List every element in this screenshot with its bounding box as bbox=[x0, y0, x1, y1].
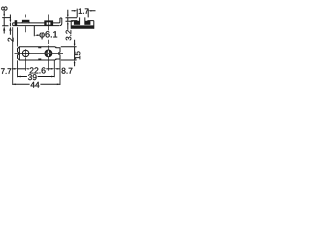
plan view hole 1 bbox=[22, 50, 28, 56]
dim row A line 17.5-25.6 bbox=[18, 68, 26, 70]
dim row A line to 39-ext bbox=[46, 68, 52, 70]
dimension 2 arrow stems bbox=[9, 15, 11, 35]
extension line 39/8.7 right bbox=[53, 60, 55, 77]
front view right end bent-up tab bbox=[59, 18, 62, 26]
dimension 8 arrowheads bbox=[3, 14, 5, 17]
dimension 15 arrowheads bbox=[74, 44, 76, 47]
phi 6.1 text bbox=[40, 31, 58, 39]
dim arrow right of 39-ext bbox=[55, 68, 58, 70]
dimension 3.2 extension lines bbox=[66, 18, 78, 21]
front view left bent lip (dark block) bbox=[15, 20, 18, 25]
plan view hole 2 (dark) bbox=[45, 50, 52, 57]
plan view notches bbox=[39, 47, 41, 60]
end view slot walls bbox=[80, 17, 85, 24]
extension line 44 right bbox=[59, 59, 61, 85]
front view clip 1 side lines bbox=[22, 22, 29, 23]
phi 6.1 hidden line bbox=[33, 26, 35, 36]
dim 44 arrowheads bbox=[13, 83, 16, 85]
dimension 1.7 line segments bbox=[72, 10, 96, 12]
dim 44 line bbox=[13, 83, 60, 85]
dim 7.7 text bbox=[1, 68, 11, 73]
dim arrow at hole1 bbox=[26, 68, 29, 70]
dimension 8 extension lines bbox=[2, 18, 11, 26]
plan view outline bbox=[18, 47, 61, 60]
dimension 3.2 arrowheads bbox=[67, 15, 69, 18]
dimension 3.2 text bbox=[66, 30, 72, 40]
dimension 1.7 text bbox=[79, 9, 88, 14]
dim 44 text bbox=[31, 82, 40, 88]
extension line hole1 bbox=[25, 58, 27, 71]
dimension 8 text bbox=[1, 6, 7, 10]
dim 39 arrowheads bbox=[18, 76, 21, 78]
extension line 7.7/39 left bbox=[17, 27, 19, 77]
dimension 15 extension lines bbox=[61, 47, 77, 60]
front view strip (side elevation base plate) bbox=[13, 23, 59, 26]
dimension 15 arrow stems bbox=[74, 40, 76, 67]
hole 1 centerline upper segments bbox=[25, 15, 27, 33]
dimension 15 text bbox=[75, 51, 81, 59]
dimension 3.2 arrow stems bbox=[67, 10, 69, 30]
dim 8.7 text bbox=[62, 68, 73, 74]
end view side walls and top edges bbox=[71, 21, 94, 29]
plan view hole 1 crosshair bbox=[21, 49, 30, 57]
extension line 44 left bbox=[12, 27, 14, 85]
hole 2 long centerline bbox=[47, 15, 49, 71]
dim 22.6 text bbox=[30, 67, 46, 73]
plan view horizontal centerline bbox=[15, 52, 64, 54]
end view base plate dark band bbox=[71, 25, 94, 28]
front view clip 1 dark bar bbox=[22, 20, 30, 22]
dimension 1.7 arrowheads bbox=[74, 10, 77, 12]
plan view bend line bbox=[18, 47, 20, 60]
dim 39 text bbox=[28, 74, 37, 80]
end view left tab dark band bbox=[74, 21, 80, 25]
dimension 2 arrowheads bbox=[10, 20, 12, 23]
dimension 8 arrow stems bbox=[3, 11, 5, 34]
end view right tab dark band bbox=[85, 21, 91, 25]
dim 7.7 shaft bbox=[12, 68, 15, 70]
dimension 1.7 extension lines bbox=[77, 9, 88, 18]
dim 39 line bbox=[18, 76, 55, 78]
front view clip 2 white window bbox=[47, 22, 51, 24]
phi 6.1 leader arrow bbox=[35, 34, 38, 36]
dimension 2 text bbox=[8, 38, 14, 42]
plan view right step bbox=[55, 47, 57, 60]
front view clip 2 dark ring bbox=[44, 20, 53, 25]
